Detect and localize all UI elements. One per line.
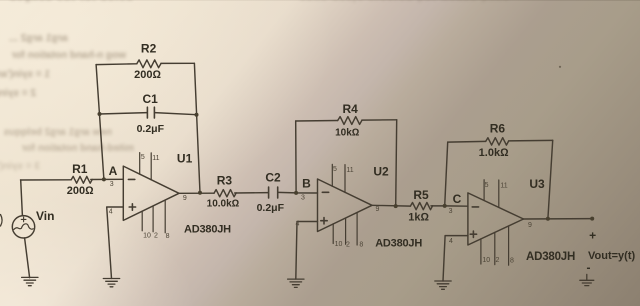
svg-text:C: C: [453, 192, 462, 206]
svg-text:AD380JH: AD380JH: [184, 224, 231, 236]
svg-text:5: 5: [485, 182, 489, 189]
svg-text:10kΩ: 10kΩ: [335, 128, 360, 139]
svg-text:8: 8: [166, 233, 170, 240]
svg-text:10: 10: [482, 257, 490, 264]
svg-text:U3: U3: [529, 177, 545, 191]
svg-text:1kΩ: 1kΩ: [408, 212, 429, 224]
svg-text:10: 10: [335, 241, 343, 248]
svg-text:R4: R4: [343, 102, 359, 116]
svg-text:U2: U2: [373, 165, 389, 179]
svg-text:Vout=y(t): Vout=y(t): [588, 250, 635, 262]
svg-text:9: 9: [183, 195, 187, 202]
svg-text:-: -: [587, 261, 591, 275]
svg-text:4: 4: [296, 221, 300, 228]
svg-text:Vin: Vin: [36, 209, 54, 223]
svg-text:3: 3: [110, 181, 114, 188]
svg-text:8: 8: [510, 257, 514, 264]
svg-text:200Ω: 200Ω: [67, 185, 94, 197]
svg-text:R1: R1: [72, 162, 88, 176]
svg-text:9: 9: [376, 206, 380, 213]
svg-text:R6: R6: [490, 121, 506, 135]
svg-text:4: 4: [449, 238, 453, 245]
svg-text:9: 9: [528, 222, 532, 229]
svg-text:11: 11: [500, 183, 507, 190]
svg-text:1.0kΩ: 1.0kΩ: [479, 147, 509, 159]
svg-text:5: 5: [333, 166, 337, 173]
svg-text:11: 11: [346, 167, 353, 174]
svg-text:2: 2: [154, 233, 158, 240]
svg-text:B: B: [302, 177, 311, 191]
svg-text:8: 8: [359, 242, 363, 249]
svg-text:C1: C1: [143, 92, 159, 106]
svg-text:AD380JH: AD380JH: [526, 251, 575, 263]
svg-text:2: 2: [346, 241, 350, 248]
svg-text:2: 2: [496, 257, 500, 264]
svg-text:AD380JH: AD380JH: [375, 238, 422, 250]
svg-text:R5: R5: [413, 188, 429, 202]
svg-text:3: 3: [301, 194, 305, 201]
svg-text:200Ω: 200Ω: [134, 69, 161, 81]
svg-text:C2: C2: [265, 171, 281, 185]
svg-text:R2: R2: [141, 41, 157, 55]
svg-text:10: 10: [143, 233, 151, 240]
svg-text:3: 3: [449, 208, 453, 215]
svg-text:0.2μF: 0.2μF: [137, 123, 165, 135]
svg-text:+: +: [589, 229, 596, 243]
svg-text:U1: U1: [177, 152, 193, 166]
svg-text:4: 4: [109, 209, 113, 216]
svg-text:R3: R3: [217, 174, 233, 188]
svg-text:11: 11: [152, 155, 159, 162]
svg-text:10.0kΩ: 10.0kΩ: [207, 199, 240, 210]
svg-text:A: A: [109, 164, 118, 178]
svg-text:0.2μF: 0.2μF: [257, 202, 285, 214]
svg-text:5: 5: [141, 154, 145, 161]
